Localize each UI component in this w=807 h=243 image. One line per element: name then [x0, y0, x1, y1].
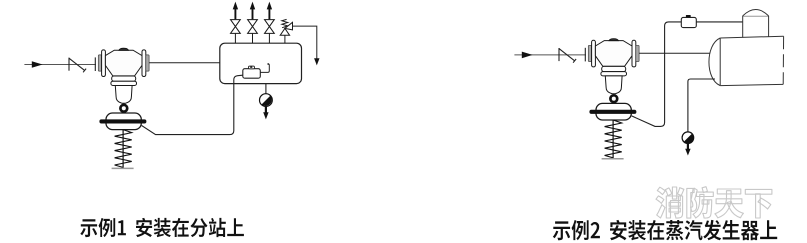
safety relief valve outlet triangle [285, 22, 293, 30]
vent shut-off valve 2 (gate valve bowtie) [248, 20, 258, 34]
discharge arrow [314, 58, 319, 65]
gauge drain arrow (example 2) [687, 144, 689, 150]
wire: outlet pipe to manifold [149, 62, 220, 64]
wire: pilot to steam dome [696, 21, 742, 23]
safety relief valve stem [284, 35, 286, 43]
wire: sensing line from diaphragm up to pilot [632, 22, 682, 127]
wire: safety valve discharge line [293, 26, 317, 59]
shell bottom edge [720, 84, 783, 85]
wire: pilot vent line with curled end [260, 64, 269, 72]
steam dome cap arc [743, 10, 769, 16]
pilot device body [243, 69, 260, 79]
vent shut-off valve 1 stem [234, 34, 236, 44]
pressure gauge PG2 [682, 132, 694, 144]
caption: 示例1 安装在分站上 [80, 218, 244, 237]
watermark 消防天下 [656, 187, 772, 218]
vent shut-off valve 3 stem [268, 34, 270, 44]
shell cap joint line [719, 38, 721, 86]
pilot device black cap [686, 15, 691, 17]
vent shut-off valve 2 stem [252, 34, 254, 44]
pressure gauge PG1 [260, 94, 273, 107]
steam dome right wall [768, 16, 770, 37]
caption: 示例2 安装在蒸汽发生器上 [553, 220, 777, 240]
shell top edge [720, 36, 783, 38]
steam generator shell left cap [709, 38, 720, 86]
pressure reducing valve assembly V1 [24, 48, 149, 168]
pilot device body (example 2) [681, 17, 696, 27]
pilot device cap [249, 66, 255, 69]
safety relief valve body triangle [280, 28, 289, 35]
safety relief valve spring [282, 19, 288, 27]
vent outlet flow arrow 2 [252, 9, 254, 19]
vent outlet flow arrow 1 [234, 9, 236, 19]
vent shut-off valve 1 (gate valve bowtie) [231, 20, 241, 34]
wire: gauge tap from shell cap [688, 79, 715, 132]
shell broken right edge (dashed) [782, 36, 784, 84]
wire: gauge stem line [265, 84, 267, 94]
pressure reducing valve assembly V2 [514, 39, 639, 159]
wire: outlet pipe to steam generator [639, 52, 712, 54]
vent outlet flow arrow 3 [268, 9, 270, 19]
steam dome cap line [743, 15, 769, 17]
wire: pilot sensing line to diaphragm [142, 75, 243, 134]
steam dome left wall [742, 16, 744, 38]
gauge drain arrow [265, 107, 267, 113]
manifold distribution box [220, 43, 302, 83]
vent shut-off valve 3 (gate valve bowtie) [265, 20, 275, 34]
